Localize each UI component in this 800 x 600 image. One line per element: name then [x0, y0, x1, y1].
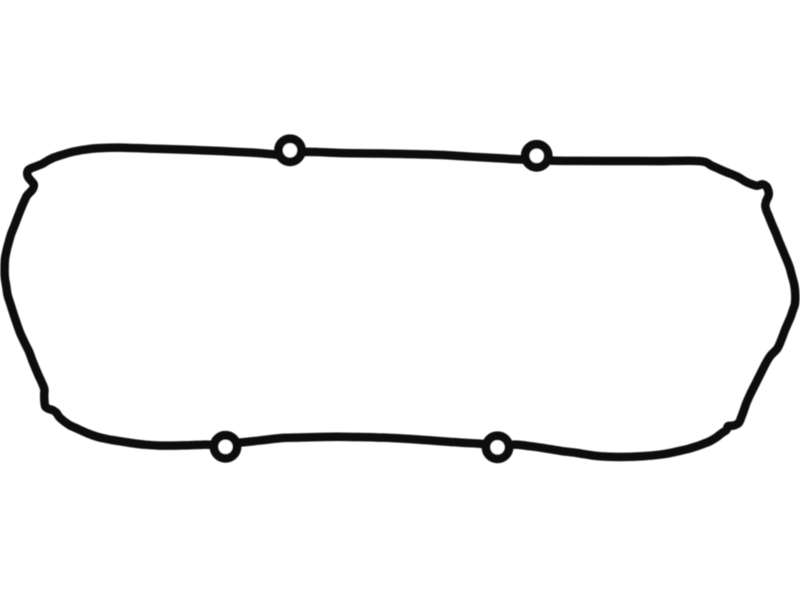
grommet bottom-right — [486, 436, 509, 459]
grommet bottom-left — [214, 435, 237, 458]
grommet top-left — [279, 139, 302, 162]
grommet top-right — [525, 144, 548, 167]
gasket outline — [5, 139, 796, 459]
